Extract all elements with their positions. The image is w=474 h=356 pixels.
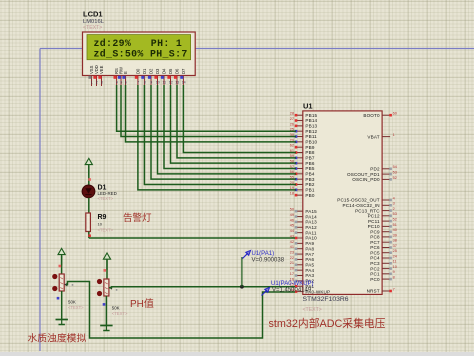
- svg-text:PC7: PC7: [370, 240, 380, 245]
- svg-text:U1(PA0-WKUP): U1(PA0-WKUP): [271, 281, 314, 287]
- svg-text:PB5: PB5: [305, 166, 314, 171]
- svg-text:<TEXT>: <TEXT>: [98, 228, 114, 233]
- svg-text:zd_S:50% PH_S:7: zd_S:50% PH_S:7: [94, 48, 188, 59]
- svg-text:PB10: PB10: [305, 140, 317, 145]
- svg-text:D7: D7: [181, 68, 186, 74]
- svg-text:STM32F103R6: STM32F103R6: [303, 296, 349, 303]
- svg-text:<TEXT>: <TEXT>: [98, 196, 114, 201]
- svg-text:27: 27: [290, 117, 294, 121]
- svg-text:PC15-OSC32_OUT: PC15-OSC32_OUT: [337, 198, 379, 203]
- svg-text:7: 7: [137, 81, 139, 85]
- svg-text:62: 62: [290, 144, 294, 148]
- svg-text:PB11: PB11: [305, 134, 317, 139]
- svg-text:PB3: PB3: [305, 177, 314, 182]
- svg-text:OSCIN_PD0: OSCIN_PD0: [352, 177, 380, 182]
- svg-text:U1: U1: [303, 102, 313, 111]
- svg-text:50K: 50K: [68, 300, 76, 305]
- svg-text:22: 22: [290, 256, 294, 260]
- svg-text:zd:29%: zd:29%: [94, 38, 132, 49]
- svg-text:PD2: PD2: [370, 167, 380, 172]
- svg-text:PA12: PA12: [305, 225, 317, 230]
- svg-text:PA6: PA6: [305, 257, 314, 262]
- svg-text:1: 1: [393, 133, 395, 137]
- svg-text:20: 20: [290, 267, 294, 271]
- svg-text:50K: 50K: [112, 306, 120, 311]
- svg-text:25: 25: [393, 249, 397, 253]
- svg-text:52: 52: [393, 218, 397, 222]
- svg-text:<TEXT>: <TEXT>: [68, 305, 84, 310]
- svg-text:53: 53: [393, 212, 397, 216]
- svg-text:PA15: PA15: [305, 209, 317, 214]
- svg-text:U1(PA1): U1(PA1): [252, 251, 275, 257]
- svg-text:<TEXT>: <TEXT>: [303, 307, 322, 313]
- svg-text:44: 44: [290, 229, 294, 233]
- svg-text:24: 24: [393, 254, 397, 258]
- svg-text:<TEXT>: <TEXT>: [83, 25, 102, 31]
- svg-text:3: 3: [101, 81, 103, 85]
- svg-text:E: E: [123, 71, 128, 74]
- svg-text:D4: D4: [161, 68, 166, 74]
- svg-text:2: 2: [96, 81, 98, 85]
- svg-text:PA7: PA7: [305, 252, 314, 257]
- svg-text:11: 11: [162, 81, 166, 85]
- svg-text:5: 5: [120, 81, 122, 85]
- svg-text:D1: D1: [142, 68, 147, 74]
- svg-text:42: 42: [290, 240, 294, 244]
- svg-text:PB15: PB15: [305, 113, 317, 118]
- svg-text:PA4: PA4: [305, 268, 314, 273]
- svg-text:PB12: PB12: [305, 129, 317, 134]
- svg-text:<TEXT>: <TEXT>: [112, 311, 128, 316]
- svg-text:PB8: PB8: [305, 150, 314, 155]
- svg-text:PB14: PB14: [305, 118, 317, 123]
- svg-text:PC1: PC1: [370, 272, 380, 277]
- svg-text:PC14-OSC32_IN: PC14-OSC32_IN: [343, 203, 380, 208]
- svg-text:PC10: PC10: [368, 224, 380, 229]
- svg-text:NRST: NRST: [367, 289, 380, 294]
- svg-text:49: 49: [290, 213, 294, 217]
- svg-text:PB6: PB6: [305, 161, 314, 166]
- svg-text:PA9: PA9: [305, 241, 314, 246]
- svg-text:1: 1: [91, 81, 93, 85]
- svg-text:4: 4: [393, 196, 395, 200]
- svg-text:26: 26: [290, 122, 294, 126]
- svg-text:9: 9: [393, 270, 395, 274]
- svg-text:12: 12: [169, 81, 173, 85]
- svg-text:40: 40: [393, 228, 397, 232]
- svg-text:PB7: PB7: [305, 156, 314, 161]
- svg-text:PA11: PA11: [305, 230, 316, 235]
- svg-text:46: 46: [290, 218, 294, 222]
- svg-text:PB4: PB4: [305, 172, 314, 177]
- svg-text:VEE: VEE: [99, 65, 104, 74]
- svg-text:4: 4: [116, 81, 118, 85]
- svg-text:PC4: PC4: [370, 256, 380, 261]
- svg-text:6: 6: [125, 81, 127, 85]
- svg-text:PC8: PC8: [370, 235, 380, 240]
- svg-text:11: 11: [393, 260, 397, 264]
- svg-text:PH值: PH值: [130, 297, 154, 310]
- svg-text:PA13: PA13: [305, 220, 317, 225]
- svg-text:PA5: PA5: [305, 263, 314, 268]
- svg-text:9: 9: [150, 81, 152, 85]
- svg-text:2: 2: [393, 207, 395, 211]
- svg-text:VBAT: VBAT: [367, 134, 379, 139]
- svg-text:39: 39: [393, 233, 397, 237]
- svg-text:PA3: PA3: [305, 273, 314, 278]
- svg-text:PB1: PB1: [305, 188, 314, 193]
- svg-text:stm32内部ADC采集电压: stm32内部ADC采集电压: [269, 316, 386, 330]
- svg-text:50: 50: [290, 208, 294, 212]
- svg-text:BOOT0: BOOT0: [363, 113, 380, 118]
- svg-text:V=1.45004149: V=1.45004149: [272, 288, 312, 294]
- svg-text:D3: D3: [155, 68, 160, 74]
- svg-text:PA14: PA14: [305, 214, 317, 219]
- svg-text:D6: D6: [174, 68, 179, 74]
- svg-text:17: 17: [290, 272, 294, 276]
- svg-text:OSCOUT_PD1: OSCOUT_PD1: [347, 172, 380, 177]
- svg-text:53: 53: [393, 171, 397, 175]
- svg-text:23: 23: [290, 250, 294, 254]
- svg-text:PB9: PB9: [305, 145, 314, 150]
- svg-text:21: 21: [290, 261, 294, 265]
- svg-text:PA8: PA8: [305, 246, 314, 251]
- svg-text:8: 8: [393, 276, 395, 280]
- svg-text:告警灯: 告警灯: [123, 212, 152, 224]
- svg-text:52: 52: [393, 176, 397, 180]
- svg-text:38: 38: [393, 239, 397, 243]
- svg-text:PC0: PC0: [370, 277, 380, 282]
- svg-text:14: 14: [182, 81, 186, 85]
- svg-text:45: 45: [290, 224, 294, 228]
- svg-text:水质浊度模拟: 水质浊度模拟: [28, 331, 87, 344]
- svg-text:D0: D0: [135, 68, 140, 74]
- svg-text:PC11: PC11: [368, 219, 380, 224]
- svg-text:7: 7: [393, 287, 395, 291]
- svg-text:3: 3: [393, 202, 395, 206]
- svg-text:LCD1: LCD1: [83, 9, 103, 18]
- svg-text:37: 37: [393, 244, 397, 248]
- svg-text:PB13: PB13: [305, 124, 317, 129]
- svg-text:28: 28: [290, 112, 294, 116]
- svg-text:54: 54: [393, 165, 397, 169]
- svg-text:13: 13: [175, 81, 179, 85]
- svg-text:41: 41: [290, 245, 294, 249]
- svg-text:PC3: PC3: [370, 261, 380, 266]
- svg-text:D5: D5: [168, 68, 173, 74]
- svg-text:PH: 1: PH: 1: [151, 38, 182, 49]
- svg-text:10: 10: [156, 81, 160, 85]
- svg-text:10: 10: [393, 265, 397, 269]
- svg-text:V=0.900038: V=0.900038: [252, 258, 285, 264]
- svg-text:PB2: PB2: [305, 182, 314, 187]
- svg-text:R9: R9: [98, 214, 107, 221]
- svg-text:60: 60: [393, 112, 397, 116]
- svg-text:51: 51: [393, 223, 397, 227]
- svg-text:PC5: PC5: [370, 250, 380, 255]
- svg-text:PC12: PC12: [368, 214, 380, 219]
- svg-text:8: 8: [144, 81, 146, 85]
- svg-text:PA10: PA10: [305, 236, 317, 241]
- svg-text:10: 10: [98, 222, 103, 227]
- svg-text:D2: D2: [148, 68, 153, 74]
- svg-text:18: 18: [290, 192, 294, 196]
- svg-text:PB0: PB0: [305, 193, 314, 198]
- svg-text:LM016L: LM016L: [83, 19, 105, 25]
